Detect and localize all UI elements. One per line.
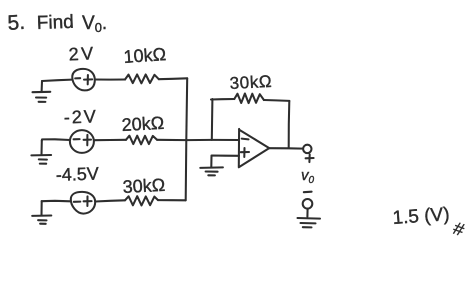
svg-text:-4.5V: -4.5V	[55, 164, 99, 185]
resistor R3 zigzag	[125, 196, 158, 205]
svg-text:30kΩ: 30kΩ	[122, 175, 165, 197]
resistor R4 zigzag (feedback 30k)	[234, 94, 264, 104]
ground G3	[32, 201, 51, 224]
voltage source VS2 (-2V)	[70, 130, 94, 153]
wire R2 to op-amp inverting input (through bus node)	[157, 139, 239, 141]
ground G4 (noninverting input)	[200, 167, 223, 175]
ground G5 (output)	[298, 218, 321, 227]
resistor R1 zigzag	[125, 74, 159, 83]
minus polarity mark	[304, 191, 312, 194]
wire op-amp noninverting input to ground stem	[211, 156, 239, 168]
wire G3 to VS3	[42, 200, 71, 203]
ground G2	[31, 141, 51, 164]
svg-text:1.5 (V): 1.5 (V)	[392, 204, 450, 229]
lower terminal node (open circle)	[303, 199, 313, 209]
voltage source VS1 (2V)	[72, 69, 95, 91]
svg-text:10kΩ: 10kΩ	[123, 44, 167, 67]
wire VS3 to R3	[95, 200, 125, 201]
wire R1 to bus corner	[159, 77, 187, 80]
voltage source VS3 (-4.5V)	[71, 192, 95, 214]
svg-text:Find: Find	[36, 12, 74, 34]
svg-text:V0.: V0.	[82, 13, 107, 35]
wire feedback top right lead	[264, 99, 289, 102]
svg-text:2V: 2V	[68, 43, 96, 64]
plus polarity mark	[306, 154, 314, 162]
wire feedback left vertical	[211, 99, 214, 140]
wire feedback right vertical	[288, 101, 291, 148]
title "5. Find Vo."	[7, 11, 107, 35]
resistor R2 zigzag	[126, 136, 157, 145]
output terminal node (open circle)	[303, 145, 311, 153]
svg-text:#: #	[451, 218, 467, 240]
svg-text:-2V: -2V	[63, 106, 98, 127]
svg-text:5.: 5.	[7, 11, 26, 35]
wire op-amp output	[269, 147, 303, 149]
wire R3 to bus bottom	[158, 199, 186, 201]
node bus vertical wire	[186, 78, 188, 200]
wire VS1 to R1	[95, 78, 125, 80]
svg-text:20kΩ: 20kΩ	[121, 113, 164, 135]
wire VS2 to R2	[94, 139, 126, 141]
ground G1	[33, 81, 51, 102]
wire feedback top left lead	[211, 98, 234, 101]
wire G2 to VS2	[42, 139, 70, 140]
wire terminal to ground G5	[306, 209, 308, 217]
svg-text:v0: v0	[301, 167, 315, 186]
op-amp U1	[239, 129, 269, 167]
svg-text:30kΩ: 30kΩ	[229, 72, 272, 93]
wire G1 to VS1	[42, 80, 72, 81]
